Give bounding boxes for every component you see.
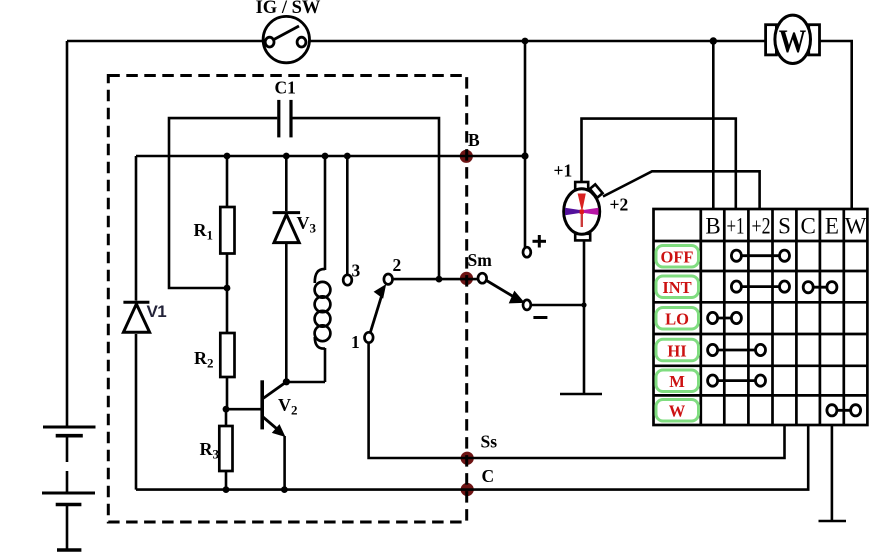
- svg-text:W: W: [779, 24, 807, 60]
- svg-text:C1: C1: [275, 78, 296, 98]
- svg-text:LO: LO: [665, 310, 689, 329]
- svg-text:INT: INT: [662, 278, 691, 297]
- svg-text:+2: +2: [752, 214, 771, 239]
- svg-text:IG / SW: IG / SW: [256, 0, 321, 18]
- svg-text:1: 1: [351, 332, 360, 352]
- svg-text:Sm: Sm: [468, 250, 493, 270]
- svg-text:2: 2: [393, 255, 402, 275]
- svg-text:B: B: [705, 214, 720, 239]
- svg-text:C: C: [801, 214, 816, 239]
- svg-text:V1: V1: [147, 302, 167, 321]
- svg-text:M: M: [669, 372, 685, 391]
- svg-text:W: W: [669, 402, 686, 421]
- svg-text:OFF: OFF: [661, 248, 694, 267]
- svg-text:+2: +2: [610, 195, 629, 215]
- svg-text:S: S: [778, 214, 791, 239]
- svg-text:B: B: [468, 130, 480, 150]
- svg-text:+1: +1: [727, 214, 745, 239]
- svg-text:Ss: Ss: [481, 432, 498, 452]
- svg-text:W: W: [845, 214, 867, 239]
- svg-text:3: 3: [352, 261, 361, 281]
- svg-text:HI: HI: [667, 341, 686, 360]
- svg-text:E: E: [825, 214, 839, 239]
- svg-text:+1: +1: [554, 161, 573, 181]
- svg-text:C: C: [482, 466, 495, 486]
